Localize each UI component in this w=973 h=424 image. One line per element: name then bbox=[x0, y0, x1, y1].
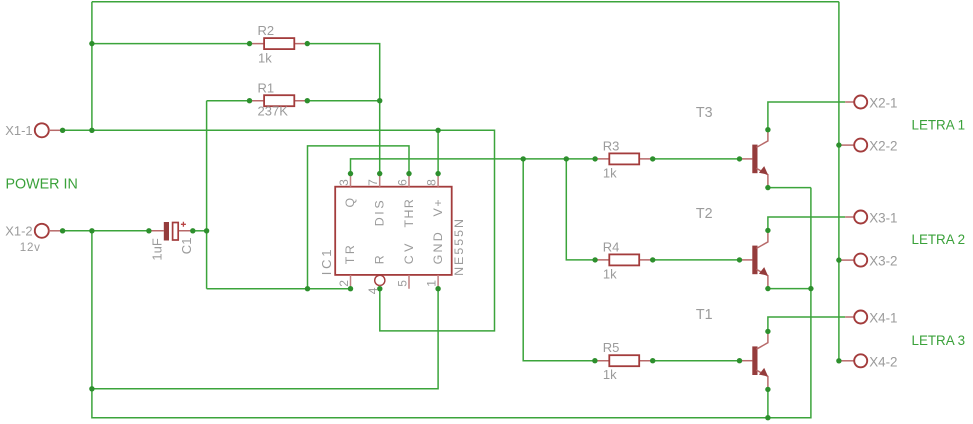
node T1 emitter bottom rail junction bbox=[765, 415, 770, 420]
resistor R2 bbox=[250, 38, 308, 49]
IC1 top pin stubs bbox=[351, 174, 439, 187]
node C1 vertical junction bbox=[204, 228, 209, 233]
svg-text:R4: R4 bbox=[603, 239, 620, 254]
connector X2-2 pad bbox=[841, 139, 868, 152]
wire R4 output to T2 base bbox=[653, 259, 740, 261]
IC1 bottom pin stubs pins 2 and 5 and 1 bbox=[351, 275, 439, 289]
wire X1-1 row horizontal to corner, down, to pin 4 wire bbox=[63, 130, 495, 331]
svg-text:X4-1: X4-1 bbox=[869, 311, 897, 326]
svg-text:LETRA 2: LETRA 2 bbox=[912, 232, 966, 247]
node pin 6 dot bbox=[406, 171, 411, 176]
node T1 base dot bbox=[737, 358, 742, 363]
IC1 pin 4 inversion bubble bbox=[375, 275, 385, 285]
node T3 emitter dot bbox=[765, 185, 770, 190]
node R3 right lead dot bbox=[650, 156, 655, 161]
wire R5 output to T1 base bbox=[653, 360, 740, 362]
capacitor C1 polarized bbox=[149, 222, 193, 241]
svg-text:X2-2: X2-2 bbox=[869, 139, 897, 154]
node pin 1 dot bbox=[435, 286, 440, 291]
svg-text:12v: 12v bbox=[20, 241, 41, 254]
wire C1 right to vertical junction bbox=[193, 230, 207, 232]
wire R2 right to pin7 vertical down to pin 7 bbox=[307, 44, 379, 174]
node R3 row branch to R5 bbox=[521, 156, 526, 161]
node X1-2 left vertical junction bbox=[89, 228, 94, 233]
node X2-2 junction bbox=[836, 142, 841, 147]
node C1 left lead dot bbox=[146, 228, 151, 233]
wire T3 emitter to ground vertical bbox=[768, 187, 811, 189]
svg-text:THR: THR bbox=[402, 198, 416, 228]
connector X1-1 pad bbox=[35, 123, 63, 137]
svg-text:3: 3 bbox=[337, 179, 351, 186]
svg-text:1k: 1k bbox=[258, 50, 272, 65]
node T3 collector dot bbox=[765, 127, 770, 132]
wire branch down to R4 row bbox=[566, 159, 595, 260]
node T2 emitter dot bbox=[765, 286, 770, 291]
svg-text:CV: CV bbox=[402, 240, 416, 264]
connector X4-1 pad bbox=[845, 311, 867, 324]
wire pin 1 GND down and left bbox=[92, 289, 438, 389]
node X1-1 rail junction bbox=[89, 128, 94, 133]
svg-text:NE555N: NE555N bbox=[452, 217, 466, 276]
wire R1 right segment joining pin7 vertical bbox=[307, 100, 379, 102]
svg-text:237K: 237K bbox=[258, 104, 289, 119]
svg-text:T1: T1 bbox=[696, 307, 713, 323]
svg-text:T2: T2 bbox=[696, 206, 713, 222]
svg-text:X1-1: X1-1 bbox=[5, 123, 32, 138]
connector X2-1 pad bbox=[845, 96, 867, 109]
node R4 right lead dot bbox=[650, 257, 655, 262]
node R2 left rail junction bbox=[89, 41, 94, 46]
node pin 4 dot bbox=[377, 286, 382, 291]
resistor R5 bbox=[595, 355, 653, 366]
connector X1-2 pad bbox=[35, 224, 63, 238]
node R1-R2 pin7 vertical junction bbox=[377, 98, 382, 103]
IC1 pin 4 stub bbox=[379, 286, 381, 289]
node C1 right lead dot bbox=[190, 228, 195, 233]
svg-text:X1-2: X1-2 bbox=[5, 223, 32, 238]
transistor T3 bbox=[740, 130, 769, 188]
node pin 2 dot bbox=[348, 286, 353, 291]
node R2 right lead dot bbox=[305, 41, 310, 46]
svg-text:V+: V+ bbox=[431, 198, 445, 217]
svg-text:DIS: DIS bbox=[373, 198, 387, 226]
wire R3 output to T3 base bbox=[653, 158, 740, 160]
svg-text:1k: 1k bbox=[603, 267, 617, 282]
svg-text:R5: R5 bbox=[603, 340, 620, 355]
transistor T1 bbox=[740, 331, 769, 389]
svg-text:2: 2 bbox=[337, 280, 351, 287]
svg-text:R: R bbox=[373, 255, 387, 264]
node R2 left lead dot bbox=[247, 41, 252, 46]
wire left vertical upper segment (top rail to X1-1 row) bbox=[91, 2, 93, 131]
node R5 right lead dot bbox=[650, 358, 655, 363]
svg-text:Q: Q bbox=[343, 198, 357, 208]
node T1 collector dot bbox=[765, 329, 770, 334]
wire R1 row left segment from vertical corner bbox=[207, 100, 250, 102]
connector X4-2 pad bbox=[841, 354, 868, 367]
node R3 row branch to R4 bbox=[564, 156, 569, 161]
node R1 right lead dot bbox=[305, 98, 310, 103]
wire T1 emitter down to bottom rail bbox=[767, 389, 769, 417]
svg-text:6: 6 bbox=[395, 179, 409, 186]
connector X3-2 pad bbox=[841, 254, 868, 267]
wire pin 8 V+ up to supply row bbox=[437, 130, 439, 173]
connector X3-1 pad bbox=[845, 211, 867, 224]
node X3-2 junction bbox=[836, 257, 841, 262]
svg-text:8: 8 bbox=[425, 179, 439, 186]
wire R2 row left segment bbox=[92, 43, 250, 45]
wire T2 collector to X3-1 bbox=[768, 217, 845, 230]
svg-text:GND: GND bbox=[431, 230, 445, 264]
node pin 8 rail junction bbox=[435, 128, 440, 133]
node R5 left lead dot bbox=[592, 358, 597, 363]
node T2 collector dot bbox=[765, 228, 770, 233]
node T2 base dot bbox=[737, 257, 742, 262]
wire left vertical lower segment with bottom rail to right vertical bbox=[92, 188, 811, 418]
svg-text:X3-2: X3-2 bbox=[869, 254, 897, 269]
svg-text:X4-2: X4-2 bbox=[869, 355, 897, 370]
node T1 emitter dot bbox=[765, 387, 770, 392]
wire branch down to R5 row bbox=[523, 159, 595, 361]
wire right-side vertical (X n-2 net) down to X4-2 row bbox=[838, 2, 840, 361]
wire T2 emitter to ground vertical bbox=[768, 288, 811, 290]
node T3 base dot bbox=[737, 156, 742, 161]
svg-text:5: 5 bbox=[395, 280, 409, 287]
wire vertical from R1 left down to pin2 row bbox=[206, 101, 208, 289]
svg-text:LETRA 3: LETRA 3 bbox=[912, 333, 966, 348]
node C1 row left vertical dot at bottom bbox=[89, 386, 94, 391]
op IC1 NE555N body bbox=[335, 187, 452, 275]
node pin 8 dot bbox=[435, 171, 440, 176]
node X1-2 lead dot bbox=[60, 228, 65, 233]
wire output Q pin3 up and right along R3 row bbox=[351, 159, 596, 174]
svg-text:1k: 1k bbox=[603, 367, 617, 382]
wire top supply rail from left vertical to right vertical bbox=[92, 1, 839, 3]
wire T3 collector to X2-1 bbox=[768, 102, 845, 130]
svg-text:LETRA 1: LETRA 1 bbox=[912, 118, 966, 133]
svg-text:R1: R1 bbox=[258, 80, 275, 95]
svg-text:R2: R2 bbox=[258, 23, 275, 38]
svg-text:R3: R3 bbox=[603, 138, 620, 153]
svg-text:1uF: 1uF bbox=[149, 238, 164, 260]
node T2 emitter ground junction bbox=[808, 286, 813, 291]
wire pin2 row horizontal (TR net) bbox=[207, 288, 351, 290]
node pin 3 dot bbox=[348, 171, 353, 176]
node R3 left lead dot bbox=[592, 156, 597, 161]
resistor R1 bbox=[250, 95, 308, 106]
svg-text:IC1: IC1 bbox=[319, 247, 334, 276]
transistor T2 bbox=[740, 230, 769, 288]
node R1 left lead dot bbox=[247, 98, 252, 103]
svg-text:T3: T3 bbox=[696, 105, 713, 121]
svg-text:1: 1 bbox=[425, 280, 439, 287]
node pin 7 dot bbox=[377, 171, 382, 176]
node R4 left lead dot bbox=[592, 257, 597, 262]
node X4-2 junction bbox=[836, 358, 841, 363]
node X1-1 lead dot bbox=[60, 128, 65, 133]
svg-text:7: 7 bbox=[366, 179, 380, 186]
wire T1 collector to X4-1 bbox=[768, 317, 845, 331]
svg-text:X3-1: X3-1 bbox=[869, 211, 897, 226]
wire X1-2 row to C1 left bbox=[63, 230, 149, 232]
svg-text:1k: 1k bbox=[603, 166, 617, 181]
svg-text:C1: C1 bbox=[179, 238, 194, 255]
node pin 2 row junction with THR vertical bbox=[305, 286, 310, 291]
svg-text:X2-1: X2-1 bbox=[869, 96, 897, 111]
svg-text:POWER IN: POWER IN bbox=[6, 177, 78, 193]
resistor R4 bbox=[595, 254, 653, 265]
wire THR net: pin2 junction up, right, down to pin 6 bbox=[308, 146, 410, 289]
svg-text:TR: TR bbox=[343, 243, 357, 265]
resistor R3 bbox=[595, 153, 653, 164]
